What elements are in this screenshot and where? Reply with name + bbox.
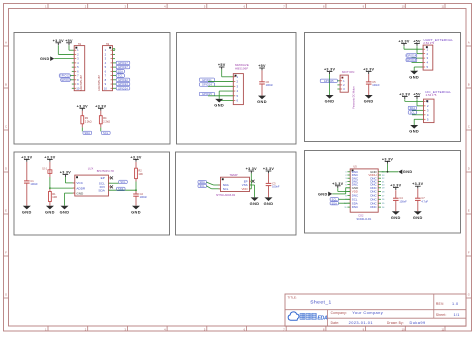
wire +3.3V down to GND (motion rail)	[329, 74, 331, 95]
svg-text:SCL: SCL	[410, 112, 416, 115]
power flag +5V (UART header)	[413, 40, 421, 46]
svg-text:+3.3V: +3.3V	[363, 68, 374, 72]
svg-text:GPIO22: GPIO22	[118, 79, 128, 82]
svg-text:+3.3V: +3.3V	[332, 182, 343, 186]
svg-text:100nF: 100nF	[30, 182, 38, 186]
H2 pins 1-3 stubs	[113, 50, 116, 58]
power flag +3.3V (R3)	[77, 104, 88, 110]
svg-text:+3.3V: +3.3V	[44, 155, 55, 159]
svg-text:+3.3V: +3.3V	[77, 104, 88, 108]
H2 pin1 no-connect circle	[113, 48, 115, 50]
power flag +3.3V (UART header)	[398, 40, 409, 46]
svg-text:G: G	[468, 292, 470, 296]
power flag +3.3V (C1)	[21, 155, 32, 161]
svg-text:B: B	[468, 82, 470, 86]
svg-text:TEMP: TEMP	[229, 173, 237, 177]
wire +3.3V to I2C pin1	[405, 99, 424, 101]
wire GND to H1 pin3	[54, 58, 74, 60]
svg-text:GPIO12: GPIO12	[60, 75, 70, 78]
circuit block outline 6 (bottom-right)	[305, 151, 461, 234]
light sensor U1 BH1750 body	[73, 175, 111, 196]
title block REV: 1.0	[436, 302, 459, 306]
part name LUX BH1750FVI-TR	[88, 167, 114, 174]
wire mmwave pins 4,6 to GND	[219, 91, 233, 101]
circuit block outline 4 (bottom-left)	[14, 152, 170, 235]
svg-text:GND: GND	[403, 170, 413, 174]
wire GPIO14 to UART pin3	[412, 57, 424, 59]
svg-text:BH1750FVI-TR: BH1750FVI-TR	[97, 170, 114, 173]
net label SDA (SCD41)	[330, 202, 338, 206]
wire right GND row to GND flag	[381, 164, 398, 173]
ground flag GND (C1)	[22, 206, 32, 215]
svg-text:+3.3V: +3.3V	[382, 157, 393, 161]
power flag +3.3V (SHT40 VDD)	[246, 167, 257, 173]
power flag +3.3V (SJ-1)	[44, 155, 55, 161]
net label GPIO27 (H2 pin5)	[116, 65, 130, 69]
svg-text:Date:: Date:	[331, 321, 340, 325]
ground flag GND (block1, left)	[40, 56, 54, 61]
svg-text:SJ-1: SJ-1	[42, 167, 48, 170]
power flag +3.3V (R2)	[130, 155, 141, 161]
power flag +3.3V (SCD41 right)	[382, 157, 393, 163]
net label SCL (I2C pin4)	[408, 111, 416, 115]
wire H2 pin5 to GPIO27	[113, 66, 117, 68]
ground flag GND (IC)	[60, 206, 70, 215]
net label SCL (H2 pin7)	[116, 74, 124, 78]
svg-text:SCL: SCL	[200, 185, 206, 188]
pin line C3 to GND	[268, 186, 270, 198]
svg-text:Drawn By:: Drawn By:	[387, 321, 404, 325]
svg-text:EDA: EDA	[317, 316, 328, 322]
svg-text:100nF: 100nF	[140, 195, 148, 199]
wire H2 pin9 to GPIO23	[113, 83, 117, 85]
resistor R3 2.2k	[81, 116, 92, 124]
ground flag GND (motion)	[325, 95, 335, 104]
title block Sheet: 1/1	[436, 313, 460, 317]
ground flag GND (C6)	[257, 96, 267, 105]
title block TITLE: Sheet_1	[288, 296, 332, 306]
net label SCL (SHT40)	[198, 184, 206, 188]
net label GPIO17 (H2 pin4)	[116, 61, 130, 65]
pin line +3.3V to R4	[100, 111, 102, 116]
svg-text:D: D	[5, 166, 7, 170]
wire R3 to SDA	[81, 127, 83, 131]
svg-text:GND: GND	[76, 191, 84, 195]
wire GPIO25 to motion pin1	[337, 80, 340, 82]
net label GPIO23 (H2 pin9)	[116, 82, 130, 86]
frame column ticks and numbers (bottom)	[45, 326, 445, 331]
ground flag GND (SCD41 left)	[318, 192, 332, 197]
wire SCL to SHT40	[206, 186, 220, 189]
wire GND flag to GND pin	[332, 188, 350, 194]
svg-text:2.2kΩ: 2.2kΩ	[85, 119, 92, 123]
svg-text:+5V: +5V	[65, 39, 73, 43]
svg-text:+5V: +5V	[413, 40, 421, 44]
capacitor C5 100nF	[366, 80, 380, 87]
pin line C5 to GND	[368, 84, 370, 95]
net label GPIO24 (H2 pin10)	[116, 87, 130, 91]
svg-text:EP: EP	[101, 176, 105, 180]
part name CO2 / SCD41-D-R1	[357, 214, 372, 221]
wire +3.3V to VDD pin	[250, 173, 252, 188]
power flag +3.3V (C7)	[412, 182, 423, 188]
svg-text:SDA: SDA	[410, 107, 416, 110]
svg-text:TITLE:: TITLE:	[288, 296, 298, 300]
svg-text:GND: GND	[264, 201, 274, 206]
capacitor C7 4.7uF	[415, 196, 428, 203]
svg-text:+3.3V: +3.3V	[21, 155, 32, 159]
power flag +3.3V (R4)	[95, 104, 106, 110]
circuit block outline 2 (top-middle)	[177, 33, 297, 145]
circuit block outline 5 (bottom-middle)	[176, 152, 297, 235]
power flag +3.3V (block1 H1)	[53, 39, 64, 45]
svg-text:LUX: LUX	[88, 167, 94, 171]
wire SDA to SHT40	[206, 182, 220, 185]
wire SDA to SCD41	[339, 202, 351, 204]
wire H2 pin4 to GPIO17	[113, 62, 117, 64]
wire H2 pin10 to GPIO24	[113, 87, 117, 89]
wire SDA pin to R2/C2 node	[109, 190, 137, 193]
svg-text:GND: GND	[364, 99, 374, 104]
pin line +3.3V to C3	[268, 173, 270, 183]
power flag +5V (C6)	[258, 64, 266, 70]
svg-text:D: D	[468, 166, 470, 170]
ground flag GND (C2)	[131, 206, 141, 215]
net label SCL (BH1750)	[119, 180, 127, 184]
power flag +5V (block1 H1)	[65, 39, 73, 45]
frame row ticks and letters (right)	[466, 40, 472, 298]
svg-text:SDA: SDA	[118, 70, 124, 73]
ground flag GND (SHT40 VSS)	[250, 197, 260, 206]
svg-text:GPIO25: GPIO25	[324, 80, 334, 83]
resistor R1 10R	[49, 192, 58, 202]
title block Date: 2023-01-01 Drawn By: Duka99	[331, 320, 426, 325]
motion pins 2,3 stubs	[337, 85, 340, 89]
svg-text:SCL: SCL	[103, 132, 109, 135]
svg-text:GND: GND	[40, 57, 50, 61]
CO2 sensor U5 SCD41 body	[344, 169, 385, 212]
wire +3.3V to H1 pin2	[58, 45, 74, 54]
svg-text:VCC: VCC	[76, 181, 83, 185]
wire SCL to I2C pin4	[412, 114, 424, 116]
wire +5V to UART pin2	[417, 46, 423, 54]
ground flag GND (block2 left)	[214, 99, 224, 108]
svg-text:SDA: SDA	[85, 132, 91, 135]
part name UART_EXTERNAL 2.54 1*5	[423, 38, 453, 45]
wire GPIO4 to H1 pin8	[70, 79, 74, 81]
svg-text:E: E	[468, 208, 470, 212]
pin line +3.3V to C1	[26, 162, 28, 181]
svg-text:CO2: CO2	[358, 214, 364, 217]
ground flag GND (C4)	[391, 211, 401, 220]
pin line C6 to GND	[261, 84, 263, 96]
net label GPIO25 (motion pin1)	[320, 79, 337, 83]
part name I2C_EXTERNAL 2.54 1*5	[425, 90, 451, 97]
svg-text:+3.3V: +3.3V	[398, 40, 409, 44]
power flag +5V (I2C header)	[413, 93, 421, 99]
wire VSS pin to GND	[250, 185, 255, 197]
svg-text:10K: 10K	[138, 172, 143, 176]
capacitor C4 100nF	[393, 196, 407, 203]
svg-text:B: B	[5, 82, 7, 86]
part name MMWAVE HB5106F	[235, 63, 249, 70]
svg-text:MOTION: MOTION	[342, 70, 354, 74]
svg-text:G: G	[5, 292, 7, 296]
svg-text:GND: GND	[257, 99, 267, 104]
svg-text:SCL: SCL	[332, 198, 338, 201]
capacitor C2 100nF	[133, 192, 147, 199]
svg-text:+3.3V: +3.3V	[324, 68, 335, 72]
svg-text:GPIO14: GPIO14	[406, 55, 416, 58]
svg-text:1.0: 1.0	[452, 302, 458, 306]
svg-text:A: A	[468, 40, 470, 44]
svg-text:10: 10	[104, 86, 107, 90]
wire SCL pin to label	[109, 182, 119, 184]
power flag +3.3V (motion)	[324, 68, 335, 74]
wire +5V to mmwave pin1	[222, 69, 234, 76]
power flag +3.3V (I2C header)	[399, 93, 410, 99]
svg-text:GND: GND	[391, 215, 401, 220]
temperature sensor U3 SHT40 body	[219, 177, 252, 191]
svg-text:SDA: SDA	[332, 202, 338, 205]
pin line +5V to C6	[261, 70, 263, 81]
svg-text:2.54 1*5: 2.54 1*5	[426, 93, 437, 97]
connector H2 (ADGHWV-15P header)	[98, 43, 112, 91]
wire H2 pin8 to GPIO22	[113, 79, 117, 81]
title block Company: Your Company	[331, 310, 384, 315]
wire SJ-1 to R1/ADDR node	[49, 173, 51, 177]
wire GPIO11 to pin2	[208, 81, 233, 83]
net label SDA (SHT40)	[198, 180, 206, 184]
svg-text:+3.3V: +3.3V	[399, 93, 410, 97]
net label SDA (BH1750)	[117, 187, 125, 191]
power flag +3.3V (SCD41 VDD)	[332, 182, 343, 188]
svg-text:A: A	[5, 40, 7, 44]
pin line +3.3V to SJ-1	[49, 162, 51, 170]
net label GPIO15 (UART pin4)	[406, 58, 417, 62]
circuit block outline 1 (top-left)	[14, 33, 170, 145]
resistor R4 2.2k	[99, 116, 110, 124]
svg-text:GND: GND	[318, 192, 328, 196]
EP no-connect cross	[110, 176, 113, 179]
net label SDA (R3)	[83, 131, 92, 135]
svg-text:Sheet_1: Sheet_1	[310, 299, 331, 305]
wire +5V to I2C pin2	[417, 99, 424, 106]
wire +3.3V to VDD row	[338, 188, 350, 191]
svg-text:+3.3V: +3.3V	[263, 167, 274, 171]
svg-text:SCL: SCL	[120, 181, 126, 184]
svg-text:+5V: +5V	[218, 63, 226, 67]
svg-text:SHT40-AD1B-R2: SHT40-AD1B-R2	[216, 194, 236, 197]
frame column ticks and numbers (top)	[45, 4, 445, 9]
pin line +3.3V to C4	[395, 190, 397, 198]
net label SCL (SCD41)	[330, 198, 338, 202]
wire GPIO12 to H1 pin7	[70, 75, 74, 77]
svg-text:HB5106F: HB5106F	[235, 66, 248, 70]
wire node to ADDR pin	[50, 187, 75, 189]
svg-text:Your Company: Your Company	[352, 310, 383, 315]
svg-text:2.54 1*5: 2.54 1*5	[423, 41, 434, 45]
ground flag GND (R1)	[45, 206, 55, 215]
svg-text:+3.3V: +3.3V	[53, 39, 64, 43]
power flag +3.3V (C4)	[390, 184, 401, 190]
svg-text:E: E	[5, 208, 7, 212]
pin line C7 to GND	[417, 200, 419, 211]
svg-text:+3.3V: +3.3V	[390, 184, 401, 188]
capacitor C6 100nF	[259, 80, 273, 87]
svg-text:2.2kΩ: 2.2kΩ	[103, 119, 110, 123]
svg-text:100nF: 100nF	[399, 199, 407, 203]
ground flag GND (I2C)	[409, 125, 419, 134]
net label GPIO22 (H2 pin8)	[116, 78, 130, 82]
pin line C4 to GND	[395, 200, 397, 211]
svg-text:GPIO15: GPIO15	[406, 59, 416, 62]
svg-text:C: C	[468, 124, 470, 128]
svg-text:DNC: DNC	[352, 205, 358, 209]
JLC EDA logo (cloud + glyphs)	[288, 312, 328, 322]
wire +5V to H1 pin1	[69, 45, 74, 50]
net label SDA (I2C pin3)	[408, 106, 416, 110]
EP pin no-connect cross	[252, 180, 255, 183]
svg-text:SCD41-D-R1: SCD41-D-R1	[357, 218, 372, 221]
svg-text:GND: GND	[60, 209, 70, 214]
svg-text:10: 10	[76, 86, 79, 90]
svg-text:U5: U5	[353, 164, 357, 168]
svg-text:+3.3V: +3.3V	[60, 171, 71, 175]
wire GPIO15 to pin5	[208, 95, 233, 97]
svg-text:+3.3V: +3.3V	[246, 167, 257, 171]
svg-text:Panasonic DC Motion: Panasonic DC Motion	[353, 86, 356, 109]
wire H2 pin6 to SDA	[113, 70, 117, 72]
wire R2 to C2	[135, 179, 137, 182]
capacitor C3 100nF	[266, 181, 280, 188]
net label GPIO14 (UART pin3)	[406, 54, 417, 58]
svg-text:GND: GND	[413, 215, 423, 220]
svg-text:+5V: +5V	[413, 93, 421, 97]
title block frame	[285, 294, 466, 326]
connector UART_EXTERNAL	[423, 45, 433, 70]
power flag +5V (block2)	[218, 63, 226, 69]
power flag +3.3V (C5)	[363, 68, 374, 74]
svg-text:+3.3V: +3.3V	[130, 155, 141, 159]
pin line +3.3V to C7	[417, 189, 419, 198]
pin line R3 to wire	[81, 124, 83, 128]
svg-text:SCL: SCL	[118, 75, 124, 78]
net label GPIO14 (mmwave pin3)	[199, 83, 214, 87]
svg-text:100nF: 100nF	[272, 185, 280, 189]
svg-text:SDA: SDA	[98, 188, 105, 192]
net label GPIO4 (H1 pin8)	[61, 78, 70, 82]
svg-text:1/1: 1/1	[454, 313, 460, 317]
wire +3.3V to VCC pin	[65, 177, 74, 183]
ground flag GND (C7)	[413, 211, 423, 220]
svg-text:GND: GND	[409, 74, 419, 79]
svg-text:GND: GND	[325, 99, 335, 104]
wire UART pin5 to GND	[414, 67, 423, 71]
pin line R4 to wire	[100, 124, 102, 128]
motion sensor module	[340, 75, 348, 92]
capacitor C1 100nF	[24, 179, 38, 186]
svg-text:GPIO4: GPIO4	[61, 79, 70, 82]
wire I2C pin5 to GND	[414, 119, 423, 125]
frame row ticks and letters (left)	[4, 40, 9, 298]
solder jumper SJ-1	[42, 167, 52, 173]
svg-text:SDA: SDA	[199, 181, 205, 184]
svg-text:10R: 10R	[52, 195, 57, 199]
net label GPIO11 (mmwave pin2)	[199, 78, 214, 82]
wire +3.3V to UART pin1	[404, 46, 423, 49]
connector H1 (ADGHWV-15P header)	[74, 43, 85, 91]
junction node ADDR	[49, 187, 51, 189]
svg-text:+3.3V: +3.3V	[412, 182, 423, 186]
svg-text:+5V: +5V	[258, 64, 266, 68]
svg-text:GPIO23: GPIO23	[118, 83, 128, 86]
H1 unconnected pin stubs	[72, 63, 74, 88]
pin line +3.3V to R3	[81, 111, 83, 116]
svg-text:GPIO27: GPIO27	[118, 66, 128, 69]
svg-text:Sheet:: Sheet:	[436, 313, 447, 317]
pin line +3.3V to C5	[368, 74, 370, 82]
svg-text:Company:: Company:	[331, 311, 348, 315]
wire GND pin down	[65, 193, 75, 206]
wire SCL to SCD41	[339, 198, 351, 200]
svg-text:Duka99: Duka99	[410, 320, 426, 325]
svg-text:REV:: REV:	[436, 302, 445, 306]
connector mmwave module	[233, 74, 243, 105]
wire H2 pin7 to SCL	[113, 75, 117, 77]
power flag +3.3V (C3)	[263, 167, 274, 173]
power flag +3.3V (VCC)	[60, 171, 71, 177]
ground flag GND (C5)	[364, 95, 374, 104]
pin line C1 to GND	[26, 183, 28, 206]
svg-text:ADGHWV-15P: ADGHWV-15P	[80, 75, 83, 91]
svg-text:GND: GND	[22, 209, 32, 214]
wire R4 to SCL	[100, 127, 102, 131]
svg-text:4.7uF: 4.7uF	[421, 199, 428, 203]
svg-text:2023-01-01: 2023-01-01	[349, 320, 373, 325]
svg-text:GND: GND	[45, 209, 55, 214]
svg-text:C: C	[5, 124, 7, 128]
junction dot R2/SDA	[135, 189, 137, 191]
svg-text:ADDR: ADDR	[76, 186, 86, 190]
net label GPIO12 (H1 pin7)	[59, 74, 70, 78]
net label GPIO15 (mmwave pin5)	[199, 92, 214, 96]
svg-text:DNC: DNC	[370, 205, 376, 209]
ground flag GND (C3)	[264, 197, 274, 206]
pin line R1 to GND	[49, 202, 51, 206]
svg-text:ADGHWV-15P: ADGHWV-15P	[98, 75, 101, 91]
svg-text:GND: GND	[409, 129, 419, 134]
svg-text:GND: GND	[131, 209, 141, 214]
DVI no-connect cross	[110, 185, 113, 188]
svg-text:SDA: SDA	[118, 188, 124, 191]
svg-text:GND: GND	[214, 103, 224, 108]
wire GPIO15 to UART pin4	[412, 62, 424, 64]
pin line C2 to GND	[135, 196, 137, 206]
ground flag GND (UART)	[409, 71, 419, 80]
wire SDA to I2C pin3	[412, 109, 424, 111]
svg-text:SCL: SCL	[223, 187, 229, 191]
svg-text:GND: GND	[250, 201, 260, 206]
svg-text:100nF: 100nF	[266, 83, 274, 87]
net label SCL (R4)	[102, 131, 111, 135]
svg-text:GPIO24: GPIO24	[118, 87, 128, 90]
svg-text:+3.3V: +3.3V	[95, 104, 106, 108]
wire GPIO14 to pin3	[208, 85, 233, 87]
connector I2C_EXTERNAL	[424, 99, 435, 123]
svg-text:VDD: VDD	[241, 187, 247, 191]
svg-text:GPIO17: GPIO17	[118, 62, 128, 65]
